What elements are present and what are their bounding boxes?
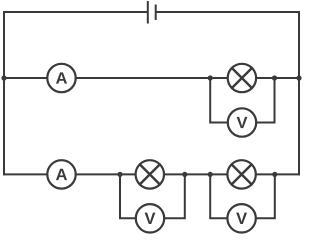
junction node left of middle branch: [1, 75, 6, 80]
wire top from battery to right corner: [157, 11, 301, 13]
wire right vertical: [298, 11, 300, 175]
wire top from left corner to battery: [3, 11, 147, 13]
wire voltmeter loop bottom-right: [210, 174, 275, 218]
wire left vertical: [3, 11, 5, 175]
battery cell long plate: [147, 1, 149, 24]
junction node right of lamp L1: [272, 75, 277, 80]
junction node right of lamp L3: [272, 172, 277, 177]
junction node right of middle branch: [296, 75, 301, 80]
lamp L1 cross: [232, 68, 252, 88]
label A of ammeter A1: [56, 72, 67, 83]
voltmeter V1 circle: [228, 108, 256, 136]
label V of voltmeter V1: [237, 117, 248, 128]
voltmeter V2 circle: [136, 204, 164, 232]
wire middle branch: [4, 77, 299, 79]
label V of voltmeter V3: [236, 213, 247, 224]
label V of voltmeter V2: [145, 213, 156, 224]
lamp L3 cross: [232, 164, 252, 184]
junction node right of lamp L2: [182, 172, 187, 177]
junction node left of lamp L3: [208, 172, 213, 177]
battery cell short plate: [155, 5, 157, 21]
wire voltmeter loop bottom-left: [120, 174, 185, 218]
lamp L2 circle: [136, 160, 164, 188]
junction node left of lamp L1: [208, 75, 213, 80]
ammeter A2 circle: [47, 160, 75, 188]
ammeter A1 circle: [47, 64, 75, 92]
junction node left of lamp L2: [117, 172, 122, 177]
lamp L1 circle: [228, 64, 256, 92]
lamp L2 cross: [140, 164, 160, 184]
lamp L3 circle: [227, 160, 255, 188]
wire bottom branch: [3, 173, 300, 175]
wire voltmeter loop top-right: [210, 78, 274, 123]
label A of ammeter A2: [56, 169, 67, 180]
voltmeter V3 circle: [227, 204, 255, 232]
